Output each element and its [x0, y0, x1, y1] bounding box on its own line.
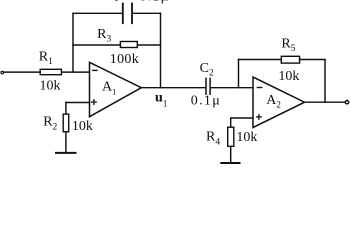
wire down to R2 — [65, 103, 67, 114]
op-amp A2 — [253, 77, 305, 128]
svg-text:0.1μ: 0.1μ — [191, 93, 221, 108]
wire C2 to A2 inverting input — [211, 87, 253, 89]
resistor R3 — [120, 42, 137, 48]
pin - (A1) — [93, 69, 97, 71]
pin - (A2) — [257, 87, 261, 89]
svg-text:10k: 10k — [236, 130, 257, 145]
wire R5 left vertical — [238, 60, 240, 88]
wire R3 right — [138, 44, 161, 46]
svg-text:10k: 10k — [40, 79, 61, 94]
input terminal — [1, 71, 4, 74]
wire R3 left — [73, 44, 120, 46]
wire R1 to A1 inverting input — [62, 71, 90, 73]
wire A2 + input — [231, 117, 253, 119]
wire R5 right horizontal — [300, 59, 325, 61]
wire R4 to ground — [230, 147, 232, 163]
wire R5 right vertical to output — [324, 60, 326, 103]
node: feedback junction vertical wire — [72, 13, 74, 72]
output terminal — [345, 101, 348, 104]
pin + (A1) — [92, 100, 97, 105]
wire input to R1 — [4, 71, 40, 73]
wire A2 output — [305, 101, 345, 103]
capacitor C2 — [206, 78, 210, 94]
svg-text:0.1μ: 0.1μ — [140, 0, 170, 4]
pin + (A2) — [257, 115, 262, 120]
wire R5 left horizontal — [239, 59, 282, 61]
svg-text:100k: 100k — [110, 52, 139, 67]
wire C1 top right — [132, 12, 160, 14]
wire R2 to ground — [65, 133, 67, 153]
svg-text:10k: 10k — [278, 69, 299, 84]
wire A1 + input — [66, 102, 90, 104]
resistor R2 — [63, 114, 68, 132]
svg-text:10k: 10k — [72, 119, 93, 134]
wire C1 top left — [73, 12, 122, 14]
resistor R4 — [228, 127, 234, 146]
resistor R5 — [281, 56, 299, 63]
op-amp A1 — [90, 62, 142, 116]
wire down to R4 — [230, 118, 232, 127]
capacitor C1 — [123, 4, 132, 24]
wire feedback right vertical down to output — [160, 13, 162, 87]
wire A1 output — [141, 87, 205, 89]
ground (R4) — [221, 162, 239, 164]
ground (R2) — [56, 152, 76, 154]
resistor R1 — [40, 69, 61, 74]
